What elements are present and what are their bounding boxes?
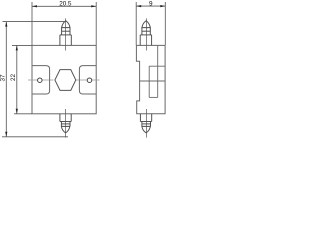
svg-text:22: 22 — [10, 74, 17, 81]
svg-text:20.5: 20.5 — [59, 0, 72, 7]
svg-text:9: 9 — [149, 0, 153, 7]
svg-text:37: 37 — [0, 74, 6, 81]
